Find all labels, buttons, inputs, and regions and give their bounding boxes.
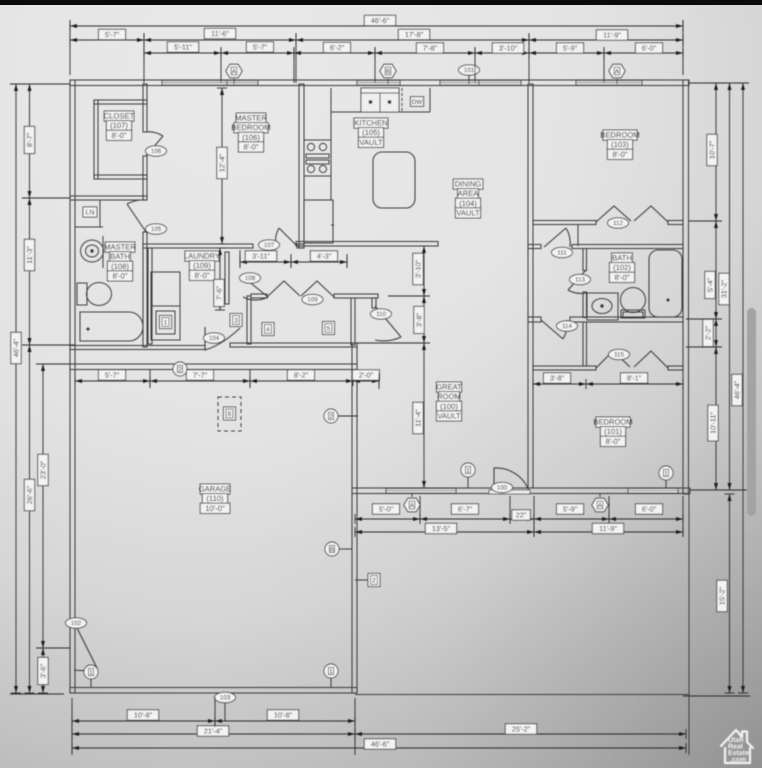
svg-text:26'-6": 26'-6" [25,485,34,504]
closet area bottom wall [70,196,147,200]
door tag 103 [215,692,236,702]
bath west wall upper [583,249,587,271]
door tag 109 [302,294,323,304]
svg-text:105: 105 [151,226,162,233]
svg-text:11'-6": 11'-6" [211,29,229,38]
wall tag 2 (garage top wall) [173,362,187,376]
window kitchen (top wall) [357,81,400,86]
svg-text:31'-2": 31'-2" [720,279,729,298]
svg-text:8'-0": 8'-0" [194,271,209,280]
bottom dim extension lines [71,698,73,755]
dim 12'-4" master bedroom [217,88,227,244]
door 100 (patio door great room) [494,468,529,491]
svg-text:8'-0": 8'-0" [605,437,620,446]
svg-text:25'-2": 25'-2" [512,725,531,734]
Utah Real Estate logo (house icon) [721,730,753,763]
svg-text:A: A [615,69,620,76]
bifold doors 115 (bedroom 101 closet) [596,351,668,368]
svg-text:A: A [598,503,603,510]
room label BEDROOM 101 [593,417,632,446]
svg-text:7'-6": 7'-6" [215,285,224,300]
linen closet label LN [83,207,97,217]
kitchen bottom wall [296,242,438,247]
svg-text:A: A [232,69,237,76]
room label BEDROOM 103 [600,130,639,159]
right dim extension lines [689,82,749,84]
dim 7'-6" laundry [215,248,225,310]
bottom right extension stubs [419,496,421,521]
svg-text:5'-7": 5'-7" [253,43,268,52]
svg-text:11'-9": 11'-9" [599,524,617,533]
room label KITCHEN 105 [354,118,388,147]
door tag 105 [146,224,167,234]
svg-text:13'-5": 13'-5" [432,524,451,533]
svg-text:2: 2 [372,578,376,585]
svg-text:(109): (109) [193,261,211,270]
svg-text:6'-0": 6'-0" [642,44,657,53]
bath 102 toilet [621,288,646,319]
closet right wall upper [143,84,147,132]
dim 46'-4" left [11,84,21,693]
bedroom 103 closet front wall right [668,221,683,225]
closet 115 west wall [583,322,587,366]
svg-text:8'-2": 8'-2" [294,371,309,380]
door 113 (bath 102) [568,270,586,293]
dim 21'-4" bottom [72,729,355,739]
svg-text:VAULT: VAULT [437,411,461,420]
svg-text:115: 115 [614,352,624,359]
svg-text:6'-0": 6'-0" [642,505,657,514]
dim 15'-2" right [725,494,735,693]
svg-text:101: 101 [464,67,475,74]
svg-text:6: 6 [228,411,232,418]
linen closet right wall [99,200,101,227]
bath bottom wall left [528,317,541,322]
kitchen island [373,152,415,208]
svg-text:108: 108 [245,275,256,282]
master bath tub [80,312,143,341]
svg-text:ROOM: ROOM [437,392,461,401]
closet 115 front wall left [533,366,596,370]
closet left wall [94,100,98,179]
door tag 115 [609,349,630,359]
svg-text:BATH: BATH [110,252,130,261]
svg-text:46'-6": 46'-6" [371,16,390,25]
window tag 1 (great room) [461,463,475,477]
svg-text:5'-7": 5'-7" [105,371,120,380]
svg-text:(107): (107) [110,121,128,130]
svg-text:BEDROOM: BEDROOM [231,123,270,132]
svg-text:LAUNDRY: LAUNDRY [184,252,220,261]
window master bedroom (top wall) [162,81,258,86]
svg-text:46'-6": 46'-6" [371,740,390,749]
garage right wall / great room left wall [352,343,357,693]
keynote 4 [262,323,274,336]
svg-text:CLOSET: CLOSET [104,112,135,121]
svg-text:5'-4": 5'-4" [706,277,715,292]
keynote 6 dashed equipment box (garage) [218,397,241,431]
window tag 101 (top) [459,65,480,75]
svg-text:113: 113 [575,277,585,284]
patio bottom edge [355,694,689,696]
svg-text:7'-7": 7'-7" [193,371,208,380]
svg-text:(103): (103) [611,140,629,149]
room label CLOSET 107 [104,111,135,140]
stove/range [304,140,331,176]
svg-text:GARAGE: GARAGE [199,485,232,494]
exterior left wall [70,80,75,693]
patio right edge [688,494,690,755]
svg-text:7'-8": 7'-8" [423,44,438,53]
svg-text:102: 102 [71,620,82,627]
svg-text:3'-8": 3'-8" [550,374,565,383]
door 111 (hall) [544,228,570,247]
svg-text:(101): (101) [604,427,622,436]
svg-text:22": 22" [516,511,527,520]
dim 31'-2" right [725,83,735,490]
bedroom closet side wall [577,224,579,246]
svg-text:8'-0": 8'-0" [111,131,126,140]
bath west wall lower [583,292,587,318]
svg-text:8'-1": 8'-1" [627,374,642,383]
dim column center (3'-10",3'-8",11'-4") [419,246,429,488]
svg-text:2'-0": 2'-0" [359,371,374,380]
svg-text:(102): (102) [613,263,631,272]
closet right wall lower [143,156,147,200]
elevation marker A (bottom left) [404,498,420,511]
svg-text:5'-9": 5'-9" [563,44,578,53]
room label BATH 102 [609,253,634,282]
svg-text:4: 4 [266,327,270,334]
svg-text:(108): (108) [111,262,129,271]
svg-text:15'-2": 15'-2" [718,586,727,605]
hall corridor wall left [351,298,355,345]
window dining (top wall) [440,81,521,86]
svg-text:8'-7": 8'-7" [25,132,34,147]
svg-text:8'-0": 8'-0" [614,273,629,282]
kitchen sink [361,88,399,112]
svg-text:46'-4": 46'-4" [12,338,21,357]
svg-text:3'-10": 3'-10" [499,44,518,53]
dim row 46'-6" top [70,21,683,31]
svg-text:3'-11": 3'-11" [252,252,270,261]
room label MASTER BEDROOM 106 [231,113,270,152]
svg-text:11'-3": 11'-3" [25,246,34,264]
dim row hall (3'-11",4'-3") [240,257,347,267]
hall closet top wall left [251,294,267,298]
closet top wall [94,100,147,104]
svg-text:(106): (106) [242,133,260,142]
elevation marker A (top right) [609,64,625,77]
keynote 3 [230,314,242,327]
door tag 107 [259,240,280,250]
door tag 104 [204,333,225,343]
tag 103 stem [224,703,226,721]
svg-text:BEDROOM: BEDROOM [593,418,632,427]
svg-text:10'-8": 10'-8" [274,711,293,720]
elevation marker A (top left) [226,64,242,77]
svg-text:2'-2": 2'-2" [704,325,713,340]
elevation marker B (top middle) [380,64,396,77]
svg-text:11'-4": 11'-4" [414,409,423,427]
exterior right wall [683,80,689,494]
svg-text:12'-4": 12'-4" [218,153,227,172]
dim 25'-2" bottom [355,729,686,739]
keynote 5 [323,322,335,335]
house bottom wall (right portion) [352,488,690,494]
dim right column inner [711,83,721,490]
svg-text:104: 104 [209,335,220,342]
door 108 (hall) [243,280,268,300]
svg-text:46'-4": 46'-4" [733,380,742,399]
svg-text:10'-8": 10'-8" [134,711,153,720]
svg-text:.com: .com [730,757,746,764]
svg-text:10'-11": 10'-11" [709,412,718,434]
room label MASTER BATH 108 [104,242,136,281]
keynote 1 (laundry) [160,316,172,329]
svg-text:103: 103 [220,695,231,702]
closet 115 front wall right [668,366,683,370]
bath 102 vanity [587,293,618,320]
door tag 100 [492,482,513,492]
garage bottom wall [70,688,357,694]
kitchen counter [331,88,430,200]
svg-text:BATH: BATH [612,254,632,263]
svg-text:VAULT: VAULT [456,208,480,217]
svg-text:(110): (110) [206,494,224,503]
svg-text:B: B [330,546,334,553]
top dim extension lines [69,20,71,75]
svg-text:AREA: AREA [458,189,480,198]
svg-text:8'-0": 8'-0" [243,142,258,151]
svg-text:110: 110 [376,311,386,318]
door 110 (great room corridor) [375,306,401,341]
linen closet bottom wall [75,226,103,228]
dim left column 3 [38,364,48,693]
bath bottom wall right [570,317,683,322]
svg-text:5: 5 [327,326,331,333]
svg-text:5'-11": 5'-11" [174,43,192,52]
svg-text:GREAT: GREAT [436,383,462,392]
svg-text:KITCHEN: KITCHEN [354,119,387,128]
center dim extension lines [388,295,430,297]
bath 102 tub [649,250,682,317]
master bath sink [81,240,104,262]
scrollbar [747,308,756,516]
svg-text:1: 1 [329,668,333,675]
door tag 111 [552,247,573,257]
room label DINING AREA 104 [453,179,483,218]
svg-text:BEDROOM: BEDROOM [600,131,639,140]
svg-text:MASTER: MASTER [235,114,267,123]
door 114 (bedroom 101 vestibule) [541,320,567,339]
door 104 (laundry/garage hall) [205,327,240,350]
room label GARAGE 110 [199,484,232,513]
svg-text:2: 2 [329,413,333,420]
svg-text:4'-3": 4'-3" [317,252,332,261]
svg-text:3'-10": 3'-10" [414,259,423,278]
svg-text:DW: DW [412,99,424,106]
window great room (bottom wall) [386,489,456,494]
svg-text:107: 107 [264,242,275,249]
svg-text:17'-8": 17'-8" [405,30,424,39]
door tag 102 [66,618,87,628]
master bedroom bottom wall (right segment) [297,244,304,248]
dim 46'-4" right [738,83,748,693]
door 105 (master bath) [127,200,146,232]
window bedroom 101 (bottom wall) [628,489,678,494]
door tag 106 [146,146,167,156]
master bath vanity counter [102,236,104,268]
svg-text:3'-8": 3'-8" [415,312,424,327]
svg-text:11'-9": 11'-9" [603,31,621,40]
master bath / laundry bottom wall [70,346,205,350]
laundry washer/dryer [151,272,180,340]
window tag 1 (garage right) [324,664,338,678]
window tag 1 (bedroom 101) [659,466,673,480]
dim row bedroom101 top (3'-8",8'-1") [533,379,683,389]
hall closet left wall [247,296,251,344]
svg-text:3'-6": 3'-6" [39,663,48,678]
laundry left wall [148,248,152,344]
svg-text:1: 1 [164,320,168,327]
laundry right wall [225,252,229,304]
bifold doors 112 (bedroom 103 closet) [596,206,668,222]
svg-text:8'-0": 8'-0" [112,271,127,280]
dim row garage top [75,376,379,386]
hall bottom wall [230,343,357,347]
door tag 114 [557,321,578,331]
exterior top wall [70,80,689,86]
svg-text:6'-2": 6'-2" [330,43,345,52]
door tag 110 [371,309,392,319]
svg-text:5'-7": 5'-7" [105,30,120,39]
svg-text:VAULT: VAULT [359,138,383,147]
svg-text:112: 112 [613,220,623,227]
svg-text:DINING: DINING [455,180,482,189]
dim row A bottom right [355,514,683,524]
svg-text:21'-4": 21'-4" [204,727,223,736]
svg-text:A: A [410,503,415,510]
dim row 3 top [144,48,683,58]
svg-text:100: 100 [497,485,508,492]
tag B (garage right wall) [325,542,339,556]
bedroom 103 closet front wall left [533,221,596,225]
master bath right wall [143,232,147,347]
door tag 112 [608,218,629,228]
dishwasher DW label [410,97,423,107]
svg-text:10'-0": 10'-0" [205,504,225,513]
svg-text:114: 114 [562,323,572,330]
refrigerator [304,200,333,243]
svg-text:10'-7": 10'-7" [708,140,717,159]
door tag 108 [240,273,261,283]
svg-text:(104): (104) [459,199,477,208]
svg-text:(105): (105) [362,128,380,137]
master bedroom / kitchen wall [299,84,304,248]
dim row bottom garage (10'-8" x2) [72,716,355,726]
svg-text:B: B [386,69,391,76]
keynote 2 (patio) [368,574,380,587]
svg-text:1: 1 [664,470,668,477]
svg-text:6'-7": 6'-7" [458,505,473,514]
door 106 (closet) [146,132,163,156]
hall top wall at door 111 [528,245,541,249]
dim 46'-6" bottom [72,743,686,753]
room label GREAT ROOM 100 [436,382,462,421]
svg-text:LN: LN [86,210,95,217]
closet back wall / hall wall [572,245,683,249]
svg-text:106: 106 [151,148,162,155]
svg-text:(100): (100) [440,402,458,411]
svg-text:MASTER: MASTER [104,243,136,252]
svg-text:1: 1 [89,669,93,676]
door 102 (garage side door) [74,622,97,671]
svg-text:5'-9": 5'-9" [563,505,578,514]
bifold doors 109 (hall closet) [267,281,334,297]
svg-text:1: 1 [466,467,470,474]
top black bar [0,0,762,5]
svg-text:23'-0": 23'-0" [39,460,48,479]
svg-text:111: 111 [557,250,567,257]
master bedroom bottom wall (left segment) [143,244,253,248]
dim row 2 top [70,35,683,45]
great room / bedrooms dividing wall [528,84,533,488]
svg-text:8'-0": 8'-0" [612,150,627,159]
window bedroom 103 (top wall) [576,81,642,86]
hall corridor wall right [372,298,376,308]
svg-text:3: 3 [234,318,238,325]
garage top wall [70,364,357,370]
dim row B bottom right [355,527,683,537]
wall tag 2 (great room wall) [324,409,338,423]
door tag 113 [570,274,591,284]
left dim extension lines [10,83,70,85]
svg-text:109: 109 [307,297,318,304]
elevation marker A (bottom right) [592,498,608,511]
master bath toilet [77,283,112,306]
room label LAUNDRY 109 [184,251,220,280]
hall top wall right [334,294,378,298]
dim left column 2 [25,84,35,693]
garage dim extension stubs [149,370,151,388]
counter dash divider [401,88,403,112]
window tag 1 (garage left) [84,665,98,679]
svg-text:2: 2 [178,366,182,373]
door 107 (master bedroom) [275,228,297,246]
closet bottom wall [94,175,147,179]
svg-text:5'-0": 5'-0" [379,505,394,514]
